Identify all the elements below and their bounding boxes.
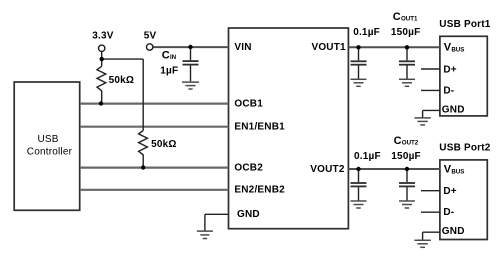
svg-text:0.1µF: 0.1µF: [354, 151, 381, 162]
svg-text:150µF: 150µF: [391, 151, 421, 162]
svg-text:GND: GND: [442, 226, 465, 237]
svg-text:VIN: VIN: [234, 42, 251, 53]
svg-text:50kΩ: 50kΩ: [151, 139, 177, 150]
svg-text:GND: GND: [442, 104, 465, 115]
svg-text:GND: GND: [237, 209, 260, 220]
svg-text:D+: D+: [443, 186, 456, 197]
svg-text:0.1µF: 0.1µF: [353, 27, 380, 38]
svg-text:USB Port2: USB Port2: [439, 142, 490, 153]
svg-text:150µF: 150µF: [391, 27, 421, 38]
svg-text:EN1/ENB1: EN1/ENB1: [234, 121, 285, 132]
svg-text:D-: D-: [443, 85, 454, 96]
svg-text:D+: D+: [443, 65, 456, 76]
svg-text:50kΩ: 50kΩ: [109, 75, 135, 86]
svg-text:5V: 5V: [144, 31, 157, 42]
svg-text:VOUT1: VOUT1: [311, 42, 346, 53]
svg-text:D-: D-: [443, 207, 454, 218]
svg-text:USB Port1: USB Port1: [439, 19, 490, 30]
svg-text:EN2/ENB2: EN2/ENB2: [234, 185, 285, 196]
svg-text:Controller: Controller: [27, 146, 73, 157]
svg-text:3.3V: 3.3V: [92, 31, 114, 42]
svg-text:OCB2: OCB2: [234, 162, 263, 173]
svg-text:USB: USB: [38, 134, 59, 145]
svg-text:OCB1: OCB1: [234, 98, 263, 109]
svg-text:VOUT2: VOUT2: [310, 164, 345, 175]
svg-text:1µF: 1µF: [160, 66, 178, 77]
